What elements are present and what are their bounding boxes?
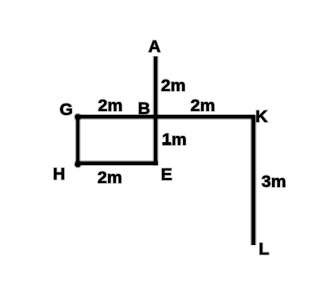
value label 2m (segment B-K) <box>191 96 216 115</box>
svg-text:2m: 2m <box>98 168 123 187</box>
node E label <box>161 165 172 184</box>
value label 2m (segment A-B) <box>161 76 186 95</box>
svg-text:G: G <box>60 100 73 119</box>
value label 3m (segment K-L) <box>262 172 287 191</box>
value label 1m (segment B-E) <box>162 130 187 149</box>
svg-text:A: A <box>148 37 160 56</box>
wire H-E horizontal <box>76 160 158 166</box>
node K label <box>255 107 268 126</box>
node G endpoint dot <box>74 113 82 121</box>
svg-text:L: L <box>259 240 269 259</box>
node L label <box>259 240 269 259</box>
node H endpoint dot <box>74 160 82 168</box>
node G label <box>60 100 73 119</box>
svg-text:3m: 3m <box>262 172 287 191</box>
svg-text:1m: 1m <box>162 130 187 149</box>
svg-text:K: K <box>255 107 268 126</box>
svg-text:2m: 2m <box>161 76 186 95</box>
wire G-H vertical <box>75 115 80 165</box>
wire A-B-E vertical <box>153 56 159 166</box>
node B label <box>138 99 150 118</box>
svg-text:B: B <box>138 99 150 118</box>
wire G-B-K horizontal <box>76 114 255 120</box>
svg-text:2m: 2m <box>98 96 123 115</box>
value label 2m (segment H-E) <box>98 168 123 187</box>
node A label <box>148 37 160 56</box>
svg-text:H: H <box>53 165 65 184</box>
node H label <box>53 165 65 184</box>
svg-text:E: E <box>161 165 172 184</box>
svg-text:2m: 2m <box>191 96 216 115</box>
value label 2m (segment G-B) <box>98 96 123 115</box>
wire K-L vertical <box>250 115 256 245</box>
